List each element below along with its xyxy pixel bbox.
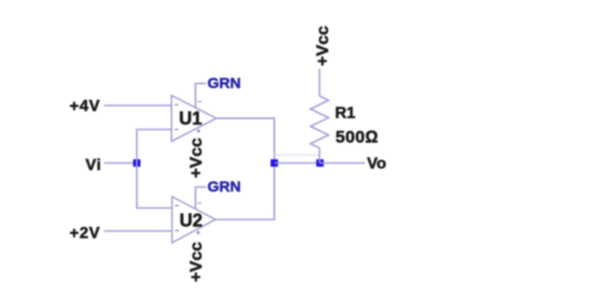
pin mark U1 bottom power <box>197 129 201 133</box>
svg-text:GRN: GRN <box>208 75 241 92</box>
wire GRN stub to U1 top edge <box>196 84 207 108</box>
pin mark U1 input bottom <box>175 129 179 130</box>
wire node A to Vo node <box>274 162 320 164</box>
wire U1 output to node A <box>216 118 274 163</box>
wire +4V to U1 noninverting input <box>104 105 172 107</box>
svg-text:U2: U2 <box>180 210 203 230</box>
wire Vi lead <box>104 162 137 164</box>
junction Vi node <box>133 159 140 166</box>
svg-text:U1: U1 <box>179 109 202 129</box>
wire GRN stub to U2 top edge <box>196 187 207 209</box>
svg-text:GRN: GRN <box>208 179 241 196</box>
svg-text:R1: R1 <box>335 105 356 122</box>
svg-text:+Vcc: +Vcc <box>186 242 205 282</box>
svg-text:+Vcc: +Vcc <box>186 138 205 178</box>
pin mark U1 top power <box>198 101 202 102</box>
pin mark U2 bottom power <box>196 231 200 235</box>
pin mark U2 input bottom <box>175 230 179 231</box>
svg-text:500Ω: 500Ω <box>336 128 379 147</box>
wire Vo lead <box>320 162 365 164</box>
resistor R1 <box>311 96 329 148</box>
junction node A <box>271 159 278 166</box>
svg-text:+2V: +2V <box>70 225 101 242</box>
svg-text:Vi: Vi <box>86 157 102 174</box>
pin mark U2 top power <box>198 203 202 204</box>
svg-text:+4V: +4V <box>70 98 101 115</box>
comparator U2 <box>172 197 216 243</box>
wire Vi to U1 inverting input <box>137 130 172 164</box>
junction Vo node <box>316 159 323 166</box>
svg-text:Vo: Vo <box>367 156 386 173</box>
wire R1 bottom to Vo node <box>319 148 321 163</box>
svg-text:+Vcc: +Vcc <box>313 26 332 66</box>
wire ghost segment above node line <box>274 154 320 156</box>
comparator U1 <box>172 95 217 141</box>
wire U2 output to node A <box>216 163 275 220</box>
pin mark U2 input top <box>175 205 179 206</box>
wire Vi to U2 noninverting input <box>137 163 172 208</box>
wire +2V to U2 inverting input <box>104 230 172 232</box>
wire +Vcc to R1 top <box>319 69 321 97</box>
pin mark U1 input top <box>175 104 179 105</box>
